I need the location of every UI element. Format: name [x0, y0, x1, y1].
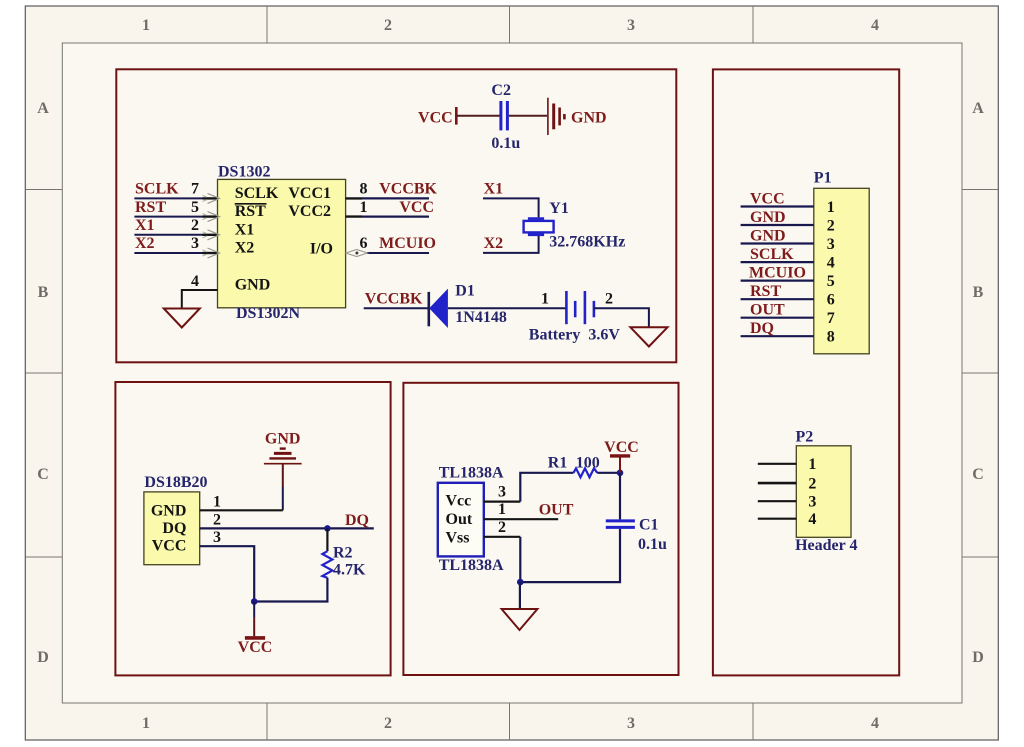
svg-text:X1: X1 — [135, 217, 155, 234]
wire P1 pin 2 GND — [741, 224, 814, 226]
value 32.768KHz — [549, 233, 625, 250]
svg-text:2: 2 — [808, 475, 816, 492]
svg-text:VCCBK: VCCBK — [365, 290, 423, 307]
svg-text:3: 3 — [498, 484, 506, 501]
power port VCC stem (DS18B20) — [253, 602, 255, 637]
DS1302 pin names left — [235, 185, 279, 293]
svg-text:3: 3 — [827, 236, 835, 253]
wire D1 to battery — [448, 307, 567, 309]
svg-text:X2: X2 — [135, 235, 155, 252]
svg-text:SCLK: SCLK — [235, 185, 279, 202]
svg-text:VCC2: VCC2 — [288, 203, 331, 220]
svg-text:2: 2 — [384, 17, 392, 34]
net label SCLK — [135, 181, 179, 198]
net label X2 — [135, 235, 155, 252]
svg-text:3: 3 — [627, 715, 635, 732]
junction DQ — [324, 525, 331, 532]
earth ground bars (DS18B20) — [264, 449, 302, 464]
svg-text:VCC: VCC — [750, 191, 785, 208]
wire pin 1 VCC — [346, 215, 429, 217]
pin 5 input arrow — [203, 212, 220, 222]
net label MCUIO — [379, 235, 436, 252]
svg-text:I/O: I/O — [310, 241, 333, 258]
svg-text:X1: X1 — [484, 181, 504, 198]
svg-text:Header 4: Header 4 — [795, 537, 857, 554]
svg-text:GND: GND — [265, 431, 301, 448]
svg-text:DQ: DQ — [750, 320, 774, 337]
svg-text:0.1u: 0.1u — [491, 135, 520, 152]
wire X1 to crystal — [483, 198, 539, 217]
junction VCC node — [617, 470, 624, 477]
value 1N4148 — [455, 309, 507, 326]
TL1838A pin numbers 3 1 2 — [498, 484, 506, 536]
wire P1 pin 7 OUT — [741, 317, 814, 319]
wire pin 4 to ground — [182, 290, 218, 308]
pin 6 I/O arrow — [346, 250, 368, 257]
wire pin 1 GND — [200, 509, 283, 511]
svg-text:P2: P2 — [796, 428, 814, 445]
svg-text:100: 100 — [576, 455, 600, 472]
wire P2 pin 4 — [758, 518, 797, 520]
svg-text:7: 7 — [827, 310, 835, 327]
svg-text:D: D — [37, 649, 49, 666]
svg-text:2: 2 — [498, 519, 506, 536]
svg-text:P1: P1 — [814, 170, 832, 187]
RST overline — [235, 203, 267, 205]
power ground GND (C2) bars — [548, 98, 565, 135]
svg-text:32.768KHz: 32.768KHz — [549, 233, 625, 250]
section box RTC circuit — [116, 69, 676, 362]
svg-text:DQ: DQ — [162, 520, 186, 537]
DS1302 pin names right — [288, 185, 333, 258]
svg-text:2: 2 — [605, 290, 613, 307]
svg-text:GND: GND — [151, 502, 187, 519]
value 4.7K — [333, 562, 366, 579]
svg-text:GND: GND — [750, 228, 786, 245]
svg-text:1N4148: 1N4148 — [455, 309, 507, 326]
svg-text:VCC: VCC — [238, 639, 273, 656]
wire P1 pin 3 GND — [741, 242, 814, 244]
svg-text:GND: GND — [750, 209, 786, 226]
wire pin 2 Vss — [484, 536, 521, 538]
svg-text:R2: R2 — [333, 544, 353, 561]
svg-text:R1: R1 — [548, 455, 568, 472]
svg-text:1: 1 — [827, 199, 835, 216]
svg-text:Vss: Vss — [446, 529, 470, 546]
svg-text:GND: GND — [571, 110, 607, 127]
part type DS1302N — [236, 305, 300, 322]
designator TL1838A (top) — [439, 464, 504, 481]
junction ground rail — [517, 579, 524, 586]
pin 2 input arrow — [203, 230, 220, 240]
net label VCC — [399, 199, 434, 216]
wire VCC node down to C1 — [619, 473, 621, 520]
wire Vcc up to R1 — [520, 473, 573, 502]
wire P2 pin 1 — [758, 463, 797, 465]
wire pin 8 VCCBK — [346, 197, 429, 199]
svg-text:Battery 3.6V: Battery 3.6V — [529, 326, 621, 343]
diode D1 anode triangle — [429, 289, 448, 328]
svg-text:SCLK: SCLK — [750, 246, 794, 263]
designator R2 — [333, 544, 353, 561]
svg-text:RST: RST — [750, 283, 781, 300]
section box DS18B20 circuit — [115, 382, 390, 675]
wire R1 to VCC junction — [597, 472, 620, 474]
svg-text:C: C — [972, 466, 984, 483]
wire P1 pin 8 DQ — [741, 335, 814, 337]
designator C1 — [639, 517, 659, 534]
svg-text:X1: X1 — [235, 221, 255, 238]
net label X1 — [135, 217, 155, 234]
svg-text:MCUIO: MCUIO — [749, 265, 806, 282]
wire net RST stub — [134, 216, 217, 218]
designator P1 — [814, 170, 832, 187]
IC U: DS1302 body — [218, 179, 346, 307]
svg-text:B: B — [38, 284, 49, 301]
P2 pin numbers 1-4 — [808, 456, 816, 528]
svg-text:RST: RST — [235, 203, 266, 220]
pin 3 input arrow — [203, 248, 220, 258]
value 0.1u (C2) — [491, 135, 520, 152]
net label RST — [135, 199, 166, 216]
resistor R1 zigzag — [574, 468, 598, 477]
svg-text:1: 1 — [142, 17, 150, 34]
battery B1 plates — [566, 291, 594, 324]
diode D1 cathode bar — [427, 292, 430, 326]
capacitor C2 plates — [501, 101, 508, 130]
svg-text:3: 3 — [627, 17, 635, 34]
power port VCC (C2 filter) — [418, 107, 456, 127]
net label VCCBK (diode) — [365, 290, 423, 307]
net label VCCBK — [379, 181, 437, 198]
svg-text:4: 4 — [871, 715, 879, 732]
wire P1 pin 6 RST — [741, 298, 814, 300]
crystal Y1 — [524, 219, 554, 235]
battery pin number 1 — [541, 290, 549, 307]
svg-text:1: 1 — [360, 199, 368, 216]
TL1838A pin names — [446, 493, 473, 547]
svg-text:2: 2 — [213, 511, 221, 528]
wire VCCBK to D1 — [364, 307, 428, 309]
net label GND (DS18B20 earth) — [265, 431, 301, 448]
svg-text:VCC: VCC — [418, 110, 453, 127]
DS18B20 pin numbers 1 2 3 — [213, 493, 221, 546]
header P1 body — [814, 188, 869, 353]
svg-text:Vcc: Vcc — [446, 493, 472, 510]
net label GND (C2) — [571, 110, 607, 127]
wire C1 down to ground rail — [520, 529, 620, 582]
svg-text:C1: C1 — [639, 517, 659, 534]
wire pin 3 VCC — [200, 546, 255, 601]
svg-text:1: 1 — [808, 456, 816, 473]
pin numbers 7 5 2 3 — [191, 181, 199, 253]
svg-text:SCLK: SCLK — [135, 181, 179, 198]
power port VCC (IR section) — [610, 456, 630, 473]
wire P2 pin 2 — [758, 482, 797, 485]
designator P2 — [796, 428, 814, 445]
svg-text:OUT: OUT — [539, 502, 574, 519]
svg-text:4: 4 — [827, 255, 835, 272]
svg-text:DS1302N: DS1302N — [236, 305, 300, 322]
DS18B20 pin names — [151, 502, 187, 554]
svg-text:OUT: OUT — [750, 302, 785, 319]
designator Y1 — [549, 200, 569, 217]
designator R1 — [548, 455, 568, 472]
svg-text:C: C — [37, 466, 49, 483]
wire net X1 stub — [134, 234, 217, 236]
svg-text:VCC: VCC — [152, 537, 187, 554]
net label VCC (DS18B20) — [238, 639, 273, 656]
svg-text:GND: GND — [235, 276, 271, 293]
wire C2 to GND — [509, 115, 547, 117]
net label X2 (crystal) — [484, 235, 504, 252]
designator C2 — [491, 82, 511, 99]
wire crystal to X2 — [483, 236, 539, 253]
wire VCC to C2 — [456, 115, 500, 117]
value 100 (R1) — [576, 455, 600, 472]
svg-text:X2: X2 — [235, 240, 255, 257]
wire P1 pin 5 MCUIO — [741, 280, 814, 282]
section box IR receiver circuit — [403, 383, 678, 675]
section box connectors — [713, 69, 899, 675]
svg-text:0.1u: 0.1u — [638, 536, 667, 553]
svg-text:TL1838A: TL1838A — [439, 557, 504, 574]
pin number 4 — [191, 273, 199, 290]
svg-text:3: 3 — [191, 235, 199, 252]
svg-text:A: A — [37, 100, 49, 117]
designator D1 — [455, 282, 475, 299]
wire earth stem to pin 1 — [282, 465, 284, 511]
ground triangle (IR section) — [502, 609, 538, 630]
svg-text:VCC: VCC — [604, 439, 639, 456]
label Battery 3.6V — [529, 326, 621, 343]
wire DQ junction down to R2 — [326, 528, 328, 551]
svg-text:VCCBK: VCCBK — [379, 181, 437, 198]
resistor R2 zigzag — [322, 551, 332, 578]
ground triangle GND of DS1302 — [164, 309, 200, 328]
net label VCC (IR section) — [604, 439, 639, 456]
svg-text:4: 4 — [808, 511, 816, 528]
svg-text:6: 6 — [827, 292, 835, 309]
pin 7 input arrow — [203, 193, 220, 203]
svg-text:4.7K: 4.7K — [333, 562, 366, 579]
svg-text:C2: C2 — [491, 82, 511, 99]
battery pin number 2 — [605, 290, 613, 307]
wire net SCLK stub — [134, 197, 217, 199]
svg-text:1: 1 — [142, 715, 150, 732]
junction VCC rail — [251, 598, 258, 605]
net label OUT — [539, 502, 574, 519]
svg-text:1: 1 — [213, 493, 221, 510]
svg-text:8: 8 — [827, 329, 835, 346]
wire pin 3 Vcc — [484, 501, 521, 503]
svg-text:RST: RST — [135, 199, 166, 216]
IC TL1838A body — [438, 483, 484, 557]
wire pin 6 MCUIO — [367, 252, 429, 254]
svg-text:7: 7 — [191, 181, 199, 198]
net labels P1 left — [749, 191, 806, 338]
svg-text:4: 4 — [871, 17, 879, 34]
wire Vss down to ground rail — [519, 537, 521, 582]
svg-text:X2: X2 — [484, 235, 504, 252]
wire P1 pin 4 SCLK — [741, 261, 814, 263]
svg-text:DS1302: DS1302 — [218, 163, 270, 180]
wire pin 1 Out — [484, 518, 558, 520]
svg-text:1: 1 — [498, 501, 506, 518]
value 0.1u (C1) — [638, 536, 667, 553]
part type Header 4 — [795, 537, 857, 554]
designator DS1302 — [218, 163, 270, 180]
svg-text:2: 2 — [191, 217, 199, 234]
svg-text:2: 2 — [384, 715, 392, 732]
part type TL1838A (bottom) — [439, 557, 504, 574]
header P2 body — [796, 446, 851, 538]
svg-text:3: 3 — [213, 529, 221, 546]
svg-text:3: 3 — [808, 494, 816, 511]
svg-text:5: 5 — [191, 199, 199, 216]
svg-text:B: B — [973, 284, 984, 301]
IC DS18B20 body — [144, 492, 200, 565]
svg-text:A: A — [972, 100, 984, 117]
svg-text:4: 4 — [191, 273, 199, 290]
wire net X2 stub — [134, 252, 217, 254]
svg-text:6: 6 — [360, 235, 368, 252]
power port VCC bar (DS18B20) — [245, 636, 265, 640]
svg-text:5: 5 — [827, 273, 835, 290]
svg-text:8: 8 — [360, 181, 368, 198]
svg-text:TL1838A: TL1838A — [439, 464, 504, 481]
net label DQ — [345, 512, 369, 529]
wire battery to ground — [594, 308, 649, 327]
wire ground stem — [519, 582, 521, 609]
designator DS18B20 — [144, 474, 207, 491]
capacitor C1 plates — [606, 521, 635, 528]
svg-text:Y1: Y1 — [549, 200, 569, 217]
svg-text:2: 2 — [827, 218, 835, 235]
P1 pin numbers 1-8 — [827, 199, 835, 346]
wire pin 2 DQ — [200, 527, 374, 529]
svg-text:DQ: DQ — [345, 512, 369, 529]
wire P1 pin 1 VCC — [741, 205, 814, 207]
svg-text:VCC1: VCC1 — [288, 185, 331, 202]
svg-text:1: 1 — [541, 290, 549, 307]
svg-text:D1: D1 — [455, 282, 475, 299]
svg-text:D: D — [972, 649, 984, 666]
wire R2 bottom to VCC rail — [254, 578, 327, 602]
pin numbers 8 1 6 — [360, 181, 368, 253]
svg-text:DS18B20: DS18B20 — [144, 474, 207, 491]
svg-text:Out: Out — [446, 511, 473, 528]
wire P2 pin 3 — [758, 500, 797, 502]
ground triangle (battery) — [630, 327, 667, 346]
net label X1 (crystal) — [484, 181, 504, 198]
svg-text:MCUIO: MCUIO — [379, 235, 436, 252]
svg-text:VCC: VCC — [399, 199, 434, 216]
